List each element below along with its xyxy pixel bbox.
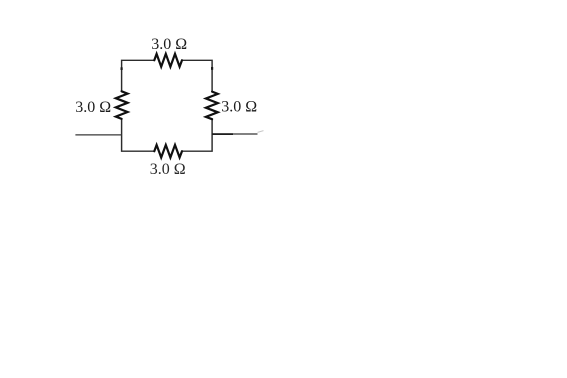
wire: right lead terminal xyxy=(212,133,257,135)
wire: scan thickening nub on right vertical wire xyxy=(211,67,213,70)
wire: faint scan wisp at end of right lead xyxy=(258,131,264,133)
wire: left lead terminal xyxy=(75,134,121,136)
svg-text:3.0 Ω: 3.0 Ω xyxy=(221,98,257,115)
wire: right lead darker overdrawn segment xyxy=(212,133,233,135)
resistor bottom 3.0 ohm xyxy=(154,145,182,158)
svg-text:3.0 Ω: 3.0 Ω xyxy=(150,161,186,178)
resistor right 3.0 ohm xyxy=(206,92,218,120)
svg-text:3.0 Ω: 3.0 Ω xyxy=(151,36,187,53)
wire: top-left corner (left node to top resistor) xyxy=(122,60,155,91)
resistor top 3.0 ohm xyxy=(154,54,182,67)
resistor left 3.0 ohm xyxy=(116,91,128,119)
wire: bottom-left corner (left resistor to bottom resistor) xyxy=(122,119,155,152)
wire: scan thickening nub on left vertical wire xyxy=(120,67,122,70)
svg-text:3.0 Ω: 3.0 Ω xyxy=(75,99,111,116)
wire: bottom-right corner (right resistor to bottom resistor) xyxy=(182,119,212,151)
wire: top-right corner (top resistor to right node) xyxy=(182,60,212,92)
